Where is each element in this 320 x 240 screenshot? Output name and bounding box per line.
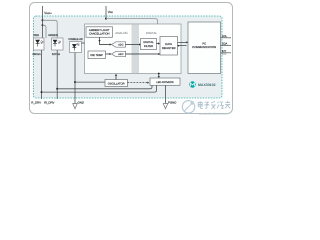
wire oscillator to led drivers dashdot [128,82,148,84]
svg-text:AMBIENT LIGHT: AMBIENT LIGHT [89,29,110,32]
wire ADC2 to data register [126,53,159,55]
svg-text:RED: RED [33,34,39,37]
svg-text:CANCELLATION: CANCELLATION [89,33,109,36]
wire LED1 to drivers [42,85,157,92]
svg-text:R_DRV: R_DRV [31,100,41,104]
wire photodiode to IC [82,42,85,44]
analog-digital divider band [132,24,140,73]
pin VLED+ [43,6,53,38]
svg-text:INT: INT [222,50,227,53]
pin INT [221,50,232,54]
block i2c communication [188,22,221,74]
watermark text [198,101,230,109]
block data register [160,37,178,56]
svg-text:DIGITAL: DIGITAL [146,31,158,35]
wire photodiode to GND [74,53,76,104]
node LED1 drive branch [41,91,43,93]
svg-text:SDA: SDA [222,43,228,46]
block oscillator [105,80,128,87]
wire PGND [165,85,167,103]
node LED2 drive branch [56,88,58,90]
svg-text:www.elecfans.com: www.elecfans.com [199,112,229,116]
pin SDA [221,43,232,46]
block led drivers [150,78,180,85]
wire VLED+ stub to LED D1 anode [43,25,47,38]
node GND branch [74,81,76,83]
wire LED1 cathode [41,50,43,99]
svg-text:OSCILLATOR: OSCILLATOR [108,82,125,85]
main IC box [85,24,182,74]
wire data register to i2c [178,42,187,45]
svg-text:ADC: ADC [118,44,123,47]
svg-text:SCL: SCL [222,35,228,38]
ADC U3 (bottom) [112,51,126,56]
svg-text:DATA: DATA [165,43,172,46]
logo maxim [189,81,195,87]
svg-text:DIE TEMP: DIE TEMP [90,54,103,57]
wire ADC1 to digital filter [126,44,140,46]
svg-text:IR_DRV: IR_DRV [44,100,55,104]
ADC U2 (top) [112,42,126,47]
wire ALC to ADC1 [100,37,110,44]
page background [0,0,240,120]
svg-text:DIGITAL: DIGITAL [143,41,154,44]
svg-text:COMMUNICATION: COMMUNICATION [192,45,216,49]
ground GND [73,100,84,108]
ground PGND [163,100,176,108]
wire LED2 to drivers [57,85,152,89]
svg-text:REGISTER: REGISTER [162,47,176,50]
svg-text:ADC: ADC [118,53,123,56]
pin VDD [106,6,113,19]
pin SCL [221,35,232,38]
node VLED branch lower [42,24,44,26]
node VLED branch upper [42,19,44,21]
watermark logo [182,101,194,113]
svg-text:VISIBLE+IR: VISIBLE+IR [68,38,82,41]
svg-text:PGND: PGND [168,100,176,104]
node VDD junction [105,18,107,20]
block ambient light cancellation [86,27,113,38]
module dashed boundary [34,16,223,98]
wire oscillator to IC [115,76,117,80]
wire IC to led drivers [158,73,160,75]
svg-text:MAX30102: MAX30102 [198,83,216,87]
wire LED2 cathode [56,50,58,99]
svg-text:GREEN: GREEN [48,34,58,37]
block die temp [88,51,106,59]
svg-text:LED DRIVERS: LED DRIVERS [156,81,174,84]
outer evkit frame [30,3,233,114]
wire GND to oscillator [75,81,105,83]
svg-text:527nm: 527nm [52,53,61,56]
svg-text:880nm: 880nm [32,53,41,56]
wire VDD to IC [106,19,158,24]
svg-text:FILTER: FILTER [144,45,153,48]
LED D2 GREEN box with 527nm label [48,34,63,56]
svg-text:GND: GND [78,100,84,104]
block digital filter [141,39,157,50]
wire VLED+ rail to LED D2 anode [43,20,58,38]
wire digital filter to data register [157,43,159,45]
photodiode VISIBLE+IR [68,38,82,53]
svg-text:ANALOG: ANALOG [115,31,128,35]
wire die temp to ADC2 [106,53,110,55]
LED D1 RED photodiode box with 880nm label [32,34,44,56]
